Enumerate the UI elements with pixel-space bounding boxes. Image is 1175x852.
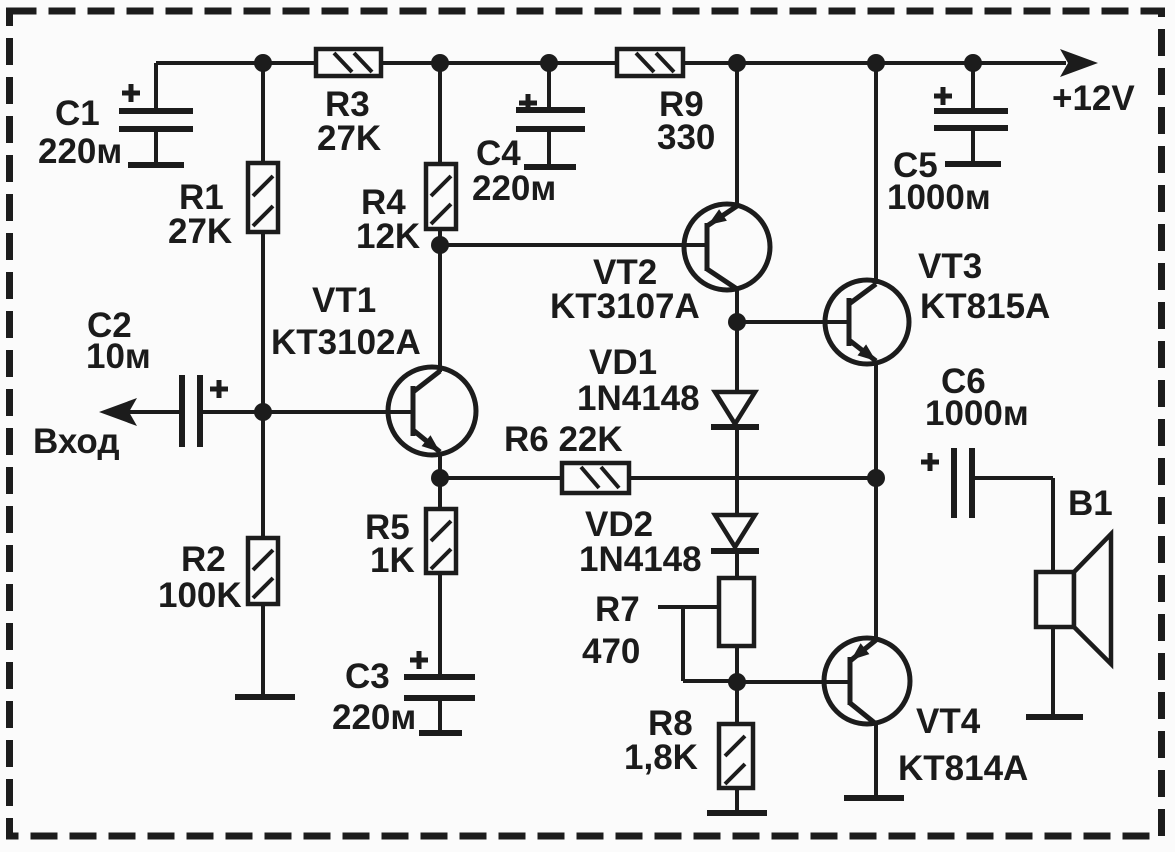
svg-text:KT3107A: KT3107A	[550, 287, 700, 326]
svg-text:KT815A: KT815A	[920, 287, 1050, 326]
svg-text:220м: 220м	[472, 169, 556, 208]
svg-text:220м: 220м	[38, 132, 122, 171]
svg-text:27K: 27K	[317, 119, 381, 158]
svg-text:470: 470	[582, 632, 640, 671]
svg-text:1K: 1K	[370, 541, 415, 580]
svg-text:KT3102A: KT3102A	[271, 323, 421, 362]
svg-text:VT3: VT3	[918, 247, 982, 286]
svg-text:C1: C1	[55, 94, 100, 133]
svg-text:C4: C4	[476, 134, 521, 173]
svg-text:VD2: VD2	[585, 505, 653, 544]
svg-text:R7: R7	[595, 590, 640, 629]
svg-text:1N4148: 1N4148	[579, 540, 702, 579]
svg-text:1N4148: 1N4148	[577, 379, 700, 418]
svg-text:330: 330	[657, 118, 715, 157]
svg-text:1000м: 1000м	[925, 394, 1029, 433]
svg-text:100K: 100K	[158, 576, 242, 615]
svg-text:+12V: +12V	[1052, 79, 1135, 118]
svg-text:R2: R2	[181, 540, 226, 579]
svg-text:1,8K: 1,8K	[624, 738, 698, 777]
svg-text:VT4: VT4	[916, 702, 981, 741]
svg-text:VT1: VT1	[312, 281, 376, 320]
svg-text:R6 22K: R6 22K	[504, 420, 623, 459]
svg-text:220м: 220м	[332, 698, 416, 737]
svg-text:KT814A: KT814A	[898, 749, 1028, 788]
svg-text:Вход: Вход	[33, 422, 120, 461]
svg-text:10м: 10м	[86, 337, 151, 376]
svg-text:B1: B1	[1068, 484, 1113, 523]
svg-text:12K: 12K	[356, 217, 420, 256]
svg-text:27K: 27K	[168, 212, 232, 251]
svg-text:1000м: 1000м	[887, 178, 991, 217]
svg-text:VD1: VD1	[589, 343, 657, 382]
svg-text:C3: C3	[345, 657, 390, 696]
